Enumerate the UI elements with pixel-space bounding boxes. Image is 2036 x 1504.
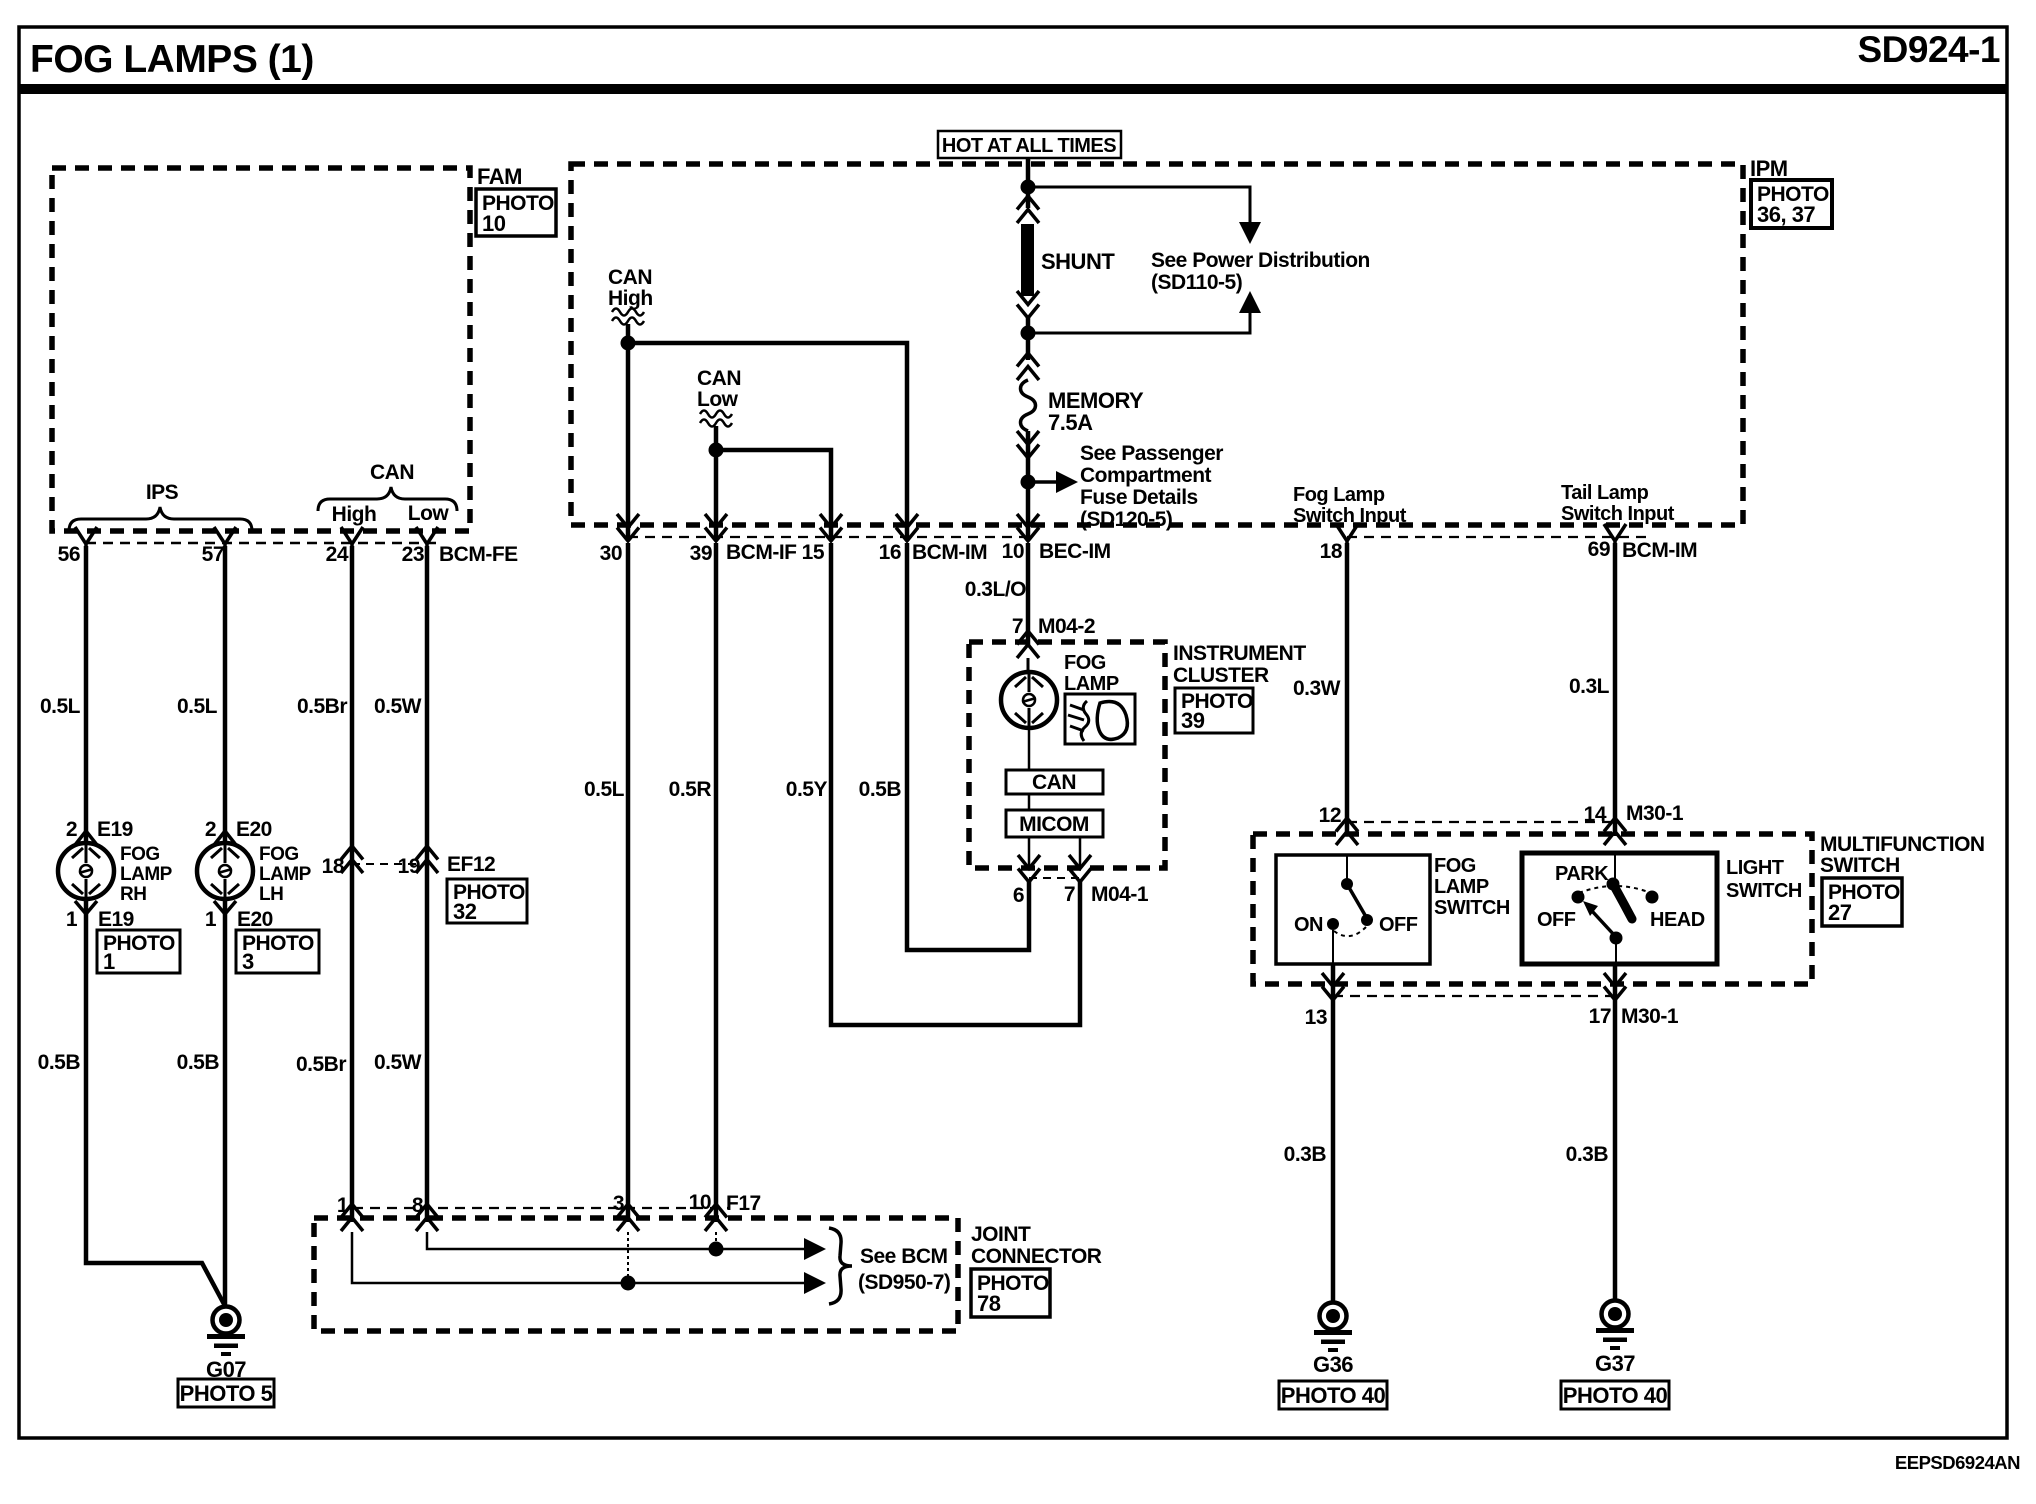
svg-text:BCM-FE: BCM-FE (439, 543, 518, 566)
EF12 pin 18 chevrons (341, 846, 363, 873)
svg-text:LAMP: LAMP (259, 864, 312, 885)
svg-text:10: 10 (689, 1191, 711, 1214)
fog switch lever (1347, 884, 1365, 915)
wire: JC pin 1 to BCM (lower run) (352, 1232, 806, 1283)
light switch throw dashed arc (1579, 886, 1651, 893)
svg-text:E20: E20 (236, 818, 272, 841)
svg-text:0.5W: 0.5W (374, 695, 422, 718)
svg-text:CAN: CAN (370, 461, 414, 484)
light switch bottom contact (1610, 932, 1623, 945)
wire: CAN High branch to pin 16 column (628, 343, 907, 540)
cluster fog lamp indicator bulb (1001, 672, 1057, 728)
svg-text:10: 10 (1002, 540, 1024, 563)
arrow up to SD110-5 (1239, 291, 1261, 313)
wire: to See Power Distribution (return) (1028, 309, 1250, 333)
svg-text:Fuse Details: Fuse Details (1080, 486, 1198, 509)
svg-text:ON: ON (1294, 914, 1323, 936)
arrow right to fuse details (1035, 480, 1058, 484)
pin 56 terminal (75, 527, 97, 550)
connector chevrons above SHUNT (1017, 196, 1039, 223)
svg-text:JOINT: JOINT (971, 1223, 1031, 1246)
M30-1 top connector thin dashed line (1347, 821, 1615, 823)
svg-text:EEPSD6924AN: EEPSD6924AN (1895, 1452, 2020, 1473)
svg-text:(SD950-7): (SD950-7) (858, 1271, 950, 1294)
svg-text:CAN: CAN (608, 266, 652, 289)
svg-text:See Passenger: See Passenger (1080, 442, 1223, 465)
svg-text:19: 19 (398, 855, 420, 878)
svg-text:12: 12 (1319, 804, 1341, 827)
svg-text:INSTRUMENT: INSTRUMENT (1173, 642, 1306, 665)
svg-text:13: 13 (1305, 1006, 1327, 1029)
svg-text:LIGHT: LIGHT (1726, 857, 1784, 879)
svg-text:1: 1 (103, 949, 115, 974)
svg-text:Switch Input: Switch Input (1293, 505, 1407, 527)
F17 connector thin dashed line (353, 1207, 728, 1209)
CAN Low squiggle symbol (700, 411, 732, 427)
EF12 pin 19 chevrons (416, 846, 438, 873)
svg-text:15: 15 (802, 541, 825, 564)
svg-text:8: 8 (412, 1194, 424, 1217)
svg-text:39: 39 (690, 542, 712, 565)
ground G07 (207, 1307, 245, 1357)
svg-text:16: 16 (879, 541, 901, 564)
cluster pin 6 chevrons (1018, 855, 1040, 882)
svg-text:G36: G36 (1313, 1352, 1353, 1377)
svg-text:High: High (608, 287, 653, 310)
fog lamp LH bulb E20 (197, 843, 253, 899)
pin 1 E19 connector (75, 901, 97, 914)
svg-text:M30-1: M30-1 (1621, 1005, 1679, 1028)
svg-text:0.3L: 0.3L (1569, 675, 1610, 698)
wire: pin 14 into light switch (1614, 853, 1616, 879)
pin 7 M04-2 chevrons (1017, 631, 1039, 658)
wire: bulb to CAN block (1028, 728, 1031, 770)
wire: fog lamp RH to ground (0.5B) (86, 899, 225, 1306)
wire: CAN High drop to junction (626, 324, 631, 343)
svg-text:OFF: OFF (1537, 909, 1576, 931)
fog switch ON contact (1327, 918, 1339, 930)
svg-text:M04-1: M04-1 (1091, 883, 1149, 906)
pin 17 chevrons (1604, 973, 1626, 1000)
pin 18 terminal (1336, 524, 1358, 547)
INSTRUMENT CLUSTER dashed box (969, 642, 1165, 868)
FAM connector thin dashed line (86, 542, 440, 545)
svg-text:2: 2 (205, 818, 216, 841)
FAM module dashed box (52, 168, 470, 531)
svg-text:F17: F17 (726, 1192, 761, 1215)
wire: battery feed stub from HOT label (1026, 158, 1031, 208)
svg-text:LH: LH (259, 884, 283, 905)
svg-text:RH: RH (120, 884, 146, 905)
svg-text:14: 14 (1584, 803, 1607, 826)
svg-text:SD924-1: SD924-1 (1857, 29, 2000, 70)
wire: MICOM to cluster pin 6 (1028, 837, 1031, 868)
svg-text:IPS: IPS (146, 481, 179, 504)
wire: pin 56 to fog lamp RH (0.5L) (84, 546, 89, 843)
svg-text:IPM: IPM (1750, 156, 1788, 181)
wire: pin 23 down (0.5W) (425, 546, 430, 1222)
wire: pin 18 to fog lamp switch (0.3W) (1345, 543, 1350, 836)
svg-text:1: 1 (66, 908, 78, 931)
svg-text:Switch Input: Switch Input (1561, 503, 1675, 525)
svg-text:0.5W: 0.5W (374, 1051, 422, 1074)
svg-text:24: 24 (326, 543, 349, 566)
svg-text:SWITCH: SWITCH (1434, 897, 1510, 919)
node: CAN Low junction (709, 443, 724, 458)
svg-text:3: 3 (613, 1192, 624, 1215)
connector chevrons above MEMORY fuse (1017, 353, 1039, 380)
BCM-IM right connector thin dashed line (1347, 536, 1648, 538)
wire: CAN Low drop to junction (714, 426, 719, 450)
svg-text:SHUNT: SHUNT (1041, 249, 1115, 274)
fuse MEMORY 7.5A (wavy symbol) (1021, 380, 1036, 431)
svg-text:Compartment: Compartment (1080, 464, 1212, 487)
svg-text:E19: E19 (98, 908, 134, 931)
LIGHT SWITCH box (1522, 853, 1717, 964)
svg-text:0.3B: 0.3B (1284, 1143, 1327, 1166)
svg-text:0.3L/O: 0.3L/O (965, 578, 1026, 601)
svg-text:LAMP: LAMP (1064, 673, 1119, 695)
svg-text:OFF: OFF (1379, 914, 1418, 936)
light switch selector arrow (1592, 911, 1616, 937)
fog switch OFF contact (1361, 914, 1373, 926)
JC pin 3 chevrons (617, 1204, 639, 1231)
node: power junction lower (1021, 326, 1036, 341)
svg-text:FOG LAMPS (1): FOG LAMPS (1) (30, 38, 314, 81)
wire: fuse to BEC-IM pin 10 (1026, 431, 1031, 540)
light switch PARK contact (1607, 878, 1620, 891)
svg-text:E20: E20 (237, 908, 273, 931)
svg-text:Fog Lamp: Fog Lamp (1293, 484, 1385, 506)
wire: pin 15 down and across to cluster pin 7 (0.5Y) (831, 543, 1080, 1025)
svg-text:PHOTO 40: PHOTO 40 (1281, 1383, 1386, 1408)
light switch HEAD contact (1646, 891, 1659, 904)
JOINT CONNECTOR dashed box (314, 1218, 958, 1331)
svg-text:7: 7 (1064, 883, 1075, 906)
wire: light switch output through pin 17 (1613, 964, 1618, 1300)
wire: fog switch output through pin 13 (1331, 964, 1336, 1302)
svg-text:0.5Y: 0.5Y (786, 778, 828, 801)
svg-text:BEC-IM: BEC-IM (1039, 540, 1111, 563)
svg-text:BCM-IM: BCM-IM (912, 541, 987, 564)
svg-text:57: 57 (202, 543, 224, 566)
svg-text:7: 7 (1012, 615, 1023, 638)
arrow to See BCM (lower) (804, 1272, 826, 1294)
pin 24 terminal (341, 527, 363, 550)
svg-text:0.3W: 0.3W (1293, 677, 1341, 700)
svg-text:FOG: FOG (259, 844, 299, 865)
svg-text:17: 17 (1589, 1005, 1611, 1028)
svg-text:MULTIFUNCTION: MULTIFUNCTION (1820, 833, 1985, 856)
wire: bottom contact to box bottom (1615, 944, 1617, 964)
wire: fog lamp LH to ground (0.5B) (223, 899, 228, 1306)
pin 30 chevrons (617, 514, 639, 541)
CAN brace (318, 487, 457, 511)
G37 PHOTO 40 box (1561, 1381, 1669, 1409)
pin 14 chevrons (1604, 818, 1626, 845)
wire: pin 16 down and across to cluster pin 6 (0.5B) (907, 543, 1029, 950)
connector chevrons below SHUNT (1017, 291, 1039, 318)
pin 13 chevrons (1322, 973, 1344, 1000)
wire: CAN Low to pin 39 (714, 450, 719, 540)
pin 12 chevrons (1336, 818, 1358, 845)
svg-text:BCM-IM: BCM-IM (1622, 539, 1697, 562)
svg-text:MICOM: MICOM (1019, 813, 1089, 836)
JC pin 8 chevrons (416, 1204, 438, 1231)
svg-text:7.5A: 7.5A (1048, 410, 1093, 435)
svg-text:FAM: FAM (477, 164, 522, 189)
wire: pin 12 into switch (1346, 855, 1348, 879)
MF PHOTO 27 box (1822, 878, 1902, 926)
svg-text:78: 78 (977, 1291, 1001, 1316)
svg-text:M30-1: M30-1 (1626, 802, 1684, 825)
svg-text:(SD110-5): (SD110-5) (1151, 271, 1242, 294)
title separator thick bar (19, 84, 2007, 94)
svg-text:1: 1 (337, 1194, 349, 1217)
svg-text:E19: E19 (97, 818, 133, 841)
wire: CAN block to MICOM block (1028, 794, 1031, 810)
light switch OFF contact (1572, 891, 1585, 904)
svg-text:CAN: CAN (1032, 771, 1076, 794)
svg-text:0.5B: 0.5B (859, 778, 902, 801)
svg-text:FOG: FOG (1064, 652, 1106, 674)
JC pin 10 chevrons (705, 1204, 727, 1231)
wire: shunt to lower junction (1026, 316, 1031, 360)
MICOM block in cluster (1006, 810, 1103, 837)
arrow to See BCM (upper) (804, 1238, 826, 1260)
ground G37 (1596, 1301, 1634, 1351)
E20 PHOTO 3 box (236, 930, 319, 974)
svg-text:Tail Lamp: Tail Lamp (1561, 482, 1649, 504)
JC pin 1 chevrons (341, 1204, 363, 1231)
svg-text:10: 10 (482, 211, 506, 236)
svg-text:0.5B: 0.5B (177, 1051, 220, 1074)
svg-text:CLUSTER: CLUSTER (1173, 664, 1269, 687)
HOT AT ALL TIMES box (938, 131, 1121, 158)
svg-text:High: High (332, 503, 377, 526)
EF12 PHOTO 32 box (447, 879, 527, 924)
svg-text:39: 39 (1181, 708, 1205, 733)
svg-text:BCM-IF: BCM-IF (726, 541, 797, 564)
svg-text:PARK: PARK (1555, 863, 1609, 885)
pin 15 chevrons (820, 514, 842, 541)
wire: pin 39 down to joint connector pin 10 (0.5R) (714, 543, 719, 1222)
svg-text:3: 3 (242, 949, 254, 974)
svg-text:0.5L: 0.5L (40, 695, 81, 718)
svg-text:See Power Distribution: See Power Distribution (1151, 249, 1370, 272)
pin 10 chevrons (1017, 514, 1039, 541)
arrow down to See Power Distribution (1239, 222, 1261, 244)
svg-text:See BCM: See BCM (860, 1245, 948, 1268)
node: fuse details junction (1021, 475, 1036, 490)
svg-text:HEAD: HEAD (1650, 909, 1705, 931)
svg-text:CONNECTOR: CONNECTOR (971, 1245, 1102, 1268)
svg-text:0.5L: 0.5L (177, 695, 218, 718)
brace for See BCM (829, 1228, 852, 1304)
IPM PHOTO 36,37 box (1751, 180, 1832, 228)
node: junction with pin 3 column (621, 1276, 636, 1291)
svg-text:Low: Low (697, 388, 739, 411)
wire: M04-2 into cluster bulb (1027, 658, 1030, 674)
M30-1 bottom connector thin dashed line (1333, 995, 1615, 997)
svg-text:0.5B: 0.5B (38, 1051, 81, 1074)
JC PHOTO 78 box (971, 1269, 1050, 1317)
svg-text:G37: G37 (1595, 1351, 1635, 1376)
MULTIFUNCTION SWITCH dashed box (1253, 834, 1812, 984)
svg-text:0.5Br: 0.5Br (297, 695, 347, 718)
connector chevrons below MEMORY fuse (1017, 431, 1039, 458)
ground G36 (1314, 1303, 1352, 1353)
cluster PHOTO 39 box (1175, 688, 1253, 733)
svg-text:36, 37: 36, 37 (1757, 202, 1815, 227)
svg-text:1: 1 (205, 908, 217, 931)
svg-text:PHOTO 40: PHOTO 40 (1563, 1383, 1668, 1408)
wire: CAN Low branch to pin 15 column (716, 450, 831, 540)
svg-text:FOG: FOG (120, 844, 160, 865)
svg-text:LAMP: LAMP (120, 864, 173, 885)
wire: pin 30 down to joint connector pin 3 (0.5L) (626, 543, 631, 1222)
wire: pin 3 drop inside JC (627, 1232, 629, 1283)
svg-text:32: 32 (453, 899, 477, 924)
wire: ON contact to box bottom (1332, 930, 1334, 964)
IPM module dashed box (571, 164, 1743, 525)
wire: pin 57 to fog lamp LH (0.5L) (223, 546, 228, 843)
wire: MICOM to cluster pin 7 (1079, 837, 1082, 868)
svg-text:Low: Low (408, 502, 450, 525)
EF12 connector dashed line (352, 863, 427, 865)
svg-text:6: 6 (1013, 884, 1024, 907)
svg-text:EF12: EF12 (447, 853, 495, 876)
pin 69 terminal (1604, 524, 1626, 547)
svg-text:56: 56 (58, 543, 80, 566)
svg-text:SWITCH: SWITCH (1726, 880, 1802, 902)
pin 39 chevrons (705, 514, 727, 541)
svg-text:HOT AT ALL TIMES: HOT AT ALL TIMES (942, 135, 1116, 157)
CAN High squiggle symbol (612, 309, 644, 325)
G36 PHOTO 40 box (1279, 1381, 1387, 1409)
BCM connector thin dashed line (628, 536, 1028, 538)
wire: to See Power Distribution (top) (1028, 187, 1250, 224)
wire: pin 10 drop inside JC (715, 1232, 717, 1249)
node: junction with pin 10 column (709, 1242, 724, 1257)
node: CAN High junction (621, 336, 636, 351)
IPS brace (69, 507, 252, 531)
wire: JC pin 8 to BCM (upper run) (427, 1232, 806, 1249)
node: power junction top (1021, 180, 1036, 195)
FOG LAMP SWITCH box (1276, 855, 1430, 964)
svg-text:27: 27 (1828, 900, 1852, 925)
fog switch common contact (1341, 878, 1353, 890)
fog switch throw dashed arc (1334, 927, 1366, 936)
E19 PHOTO 1 box (97, 930, 180, 974)
svg-text:18: 18 (1320, 540, 1343, 563)
svg-text:M04-2: M04-2 (1038, 615, 1095, 638)
cluster pin 7 chevrons (1069, 855, 1091, 882)
shunt SHUNT (thick bar) (1021, 224, 1034, 296)
M04-1 connector thin dashed line (1029, 877, 1080, 879)
svg-text:LAMP: LAMP (1434, 876, 1489, 898)
svg-text:SWITCH: SWITCH (1820, 854, 1900, 877)
svg-text:0.5Br: 0.5Br (296, 1053, 346, 1076)
svg-text:0.5R: 0.5R (669, 778, 712, 801)
pin 23 terminal (416, 527, 438, 550)
svg-text:(SD120-5): (SD120-5) (1080, 508, 1172, 531)
fog lamp RH bulb E19 (58, 843, 114, 899)
svg-text:PHOTO 5: PHOTO 5 (180, 1381, 273, 1406)
svg-text:FOG: FOG (1434, 855, 1476, 877)
svg-text:0.3B: 0.3B (1566, 1143, 1609, 1166)
svg-text:30: 30 (600, 542, 622, 565)
light switch thick lever (1613, 884, 1632, 919)
svg-text:0.5L: 0.5L (584, 778, 625, 801)
CAN block in cluster (1006, 770, 1103, 794)
wire: CAN High to pin 30 (626, 343, 631, 540)
wire: pin 69 to light switch (0.3L) (1613, 543, 1618, 836)
pin 1 E20 connector (214, 901, 236, 914)
FAM PHOTO 10 box (476, 189, 556, 236)
svg-text:2: 2 (66, 818, 77, 841)
G07 PHOTO 5 box (178, 1379, 274, 1407)
pin 57 terminal (214, 527, 236, 550)
wire: pin 24 down (0.5Br) (350, 546, 355, 1222)
svg-text:CAN: CAN (697, 367, 741, 390)
pin 16 chevrons (896, 514, 918, 541)
svg-text:18: 18 (322, 855, 345, 878)
wire: BEC-IM pin 10 to cluster pin 7 M04-2 (0.3L/O) (1026, 543, 1031, 645)
svg-text:23: 23 (402, 543, 424, 566)
svg-text:69: 69 (1588, 538, 1610, 561)
fog lamp icon box (1065, 694, 1135, 744)
